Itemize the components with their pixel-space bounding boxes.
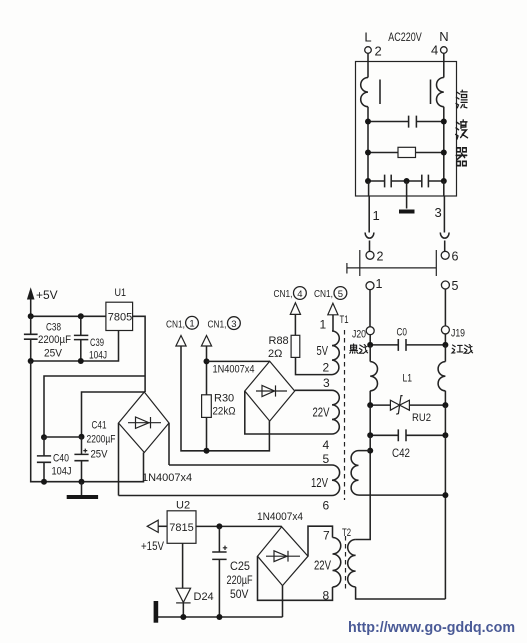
junction dot gnd rail at C38 — [28, 358, 34, 364]
svg-text:CN1,: CN1, — [208, 320, 227, 331]
svg-text:6: 6 — [323, 499, 330, 513]
svg-text:7: 7 — [323, 529, 330, 543]
label 黑线 (black wire) — [350, 344, 368, 353]
wire U2 output to bridge BR3 — [196, 525, 282, 527]
varistor RU2 (bidirectional suppressor) — [370, 396, 445, 415]
wire right rail C42 down to T2 bottom — [444, 435, 446, 599]
svg-text:1N4007x4: 1N4007x4 — [142, 472, 192, 484]
junction dots row 3 — [365, 178, 371, 184]
regulator U1 7805 — [106, 302, 133, 330]
ground symbol thick bar left — [154, 601, 159, 623]
svg-text:2: 2 — [375, 44, 382, 59]
svg-text:2: 2 — [377, 250, 384, 264]
ground chassis bar of filter — [399, 210, 415, 214]
svg-text:C41: C41 — [92, 420, 107, 432]
label 波 (filter char 2) — [456, 120, 468, 139]
terminal J20 — [366, 327, 374, 335]
diode D24 — [176, 588, 191, 617]
bridge rectifier BR1 — [119, 392, 170, 453]
svg-text:CN1,: CN1, — [274, 289, 293, 300]
label 红线 (red wire) — [452, 345, 473, 354]
svg-text:CN1,: CN1, — [166, 320, 185, 331]
wire pin 5 to bridge BR1 — [169, 464, 332, 466]
transformer T2 primary winding — [348, 540, 356, 587]
svg-text:4: 4 — [431, 43, 438, 58]
wire L terminal to filter box — [367, 53, 369, 77]
transformer T1 core — [344, 330, 346, 500]
wire left rail C0 to L1 — [369, 345, 371, 362]
inductor L1 left winding — [370, 362, 377, 391]
transformer T1 22V winding — [332, 390, 339, 434]
wire left rail RU2 to C42 — [369, 405, 371, 435]
junction dot C40 C41 link right — [79, 434, 85, 440]
wire ground rail top section — [31, 331, 119, 362]
svg-text:5: 5 — [452, 279, 459, 293]
svg-text:L: L — [364, 30, 371, 45]
svg-text:3: 3 — [435, 205, 442, 220]
junction dot CN1,3 node — [204, 358, 210, 364]
svg-text:1: 1 — [320, 318, 327, 332]
power arrow +15V — [147, 520, 158, 532]
terminal pin 4 of filter (N input) — [441, 47, 448, 54]
wire BR1 right corner to pin5 — [168, 423, 170, 465]
connector housing tick right — [435, 250, 437, 276]
connector arrow CN1,1 — [176, 336, 186, 347]
svg-text:C40: C40 — [53, 453, 69, 465]
wire T1 primary bottom lead to right rail — [359, 494, 446, 496]
connector socket pin 2 — [366, 251, 374, 259]
svg-text:1: 1 — [189, 319, 194, 330]
capacitor C0 — [370, 339, 445, 351]
wire N terminal to filter box — [443, 53, 445, 77]
transformer T1 primary winding — [351, 451, 358, 495]
svg-text:22kΩ: 22kΩ — [213, 406, 236, 418]
svg-text:R88: R88 — [269, 335, 289, 347]
resistor filter bleeder row 2 — [368, 147, 444, 157]
transformer T1 12V winding — [332, 465, 340, 496]
junction dot C25 top — [216, 523, 222, 529]
wire right rail C0 to L1 — [444, 345, 446, 362]
wire pin 2 to R88 — [296, 357, 333, 374]
power arrow +5V — [27, 287, 35, 299]
wire CN1,3 node to bridge BR2 top — [207, 360, 270, 362]
wire linking C40 and C41 tops — [44, 436, 82, 438]
svg-text:N: N — [439, 29, 448, 44]
svg-text:104J: 104J — [52, 466, 72, 478]
connector plug pin 1 — [366, 282, 374, 290]
wire filter pin 1 down to plug — [368, 181, 371, 233]
svg-text:U1: U1 — [115, 287, 127, 299]
wire U1 input from bridge BR1 — [133, 316, 146, 392]
svg-text:5V: 5V — [317, 344, 329, 358]
wire pin 3 to bridge BR2 — [295, 389, 332, 391]
label 滤 (filter char 1) — [456, 90, 467, 108]
wire J20 to C0 node — [369, 335, 371, 345]
wire pin 5 to J19 — [444, 289, 446, 326]
terminal pin 2 of filter (L input) — [365, 47, 372, 54]
junction dot bottom rail at C41 — [79, 479, 85, 485]
ground symbol bar — [67, 495, 98, 499]
junction dot gnd rail at C39 — [78, 358, 84, 364]
svg-text:C39: C39 — [90, 337, 104, 349]
capacitor C38 — [24, 316, 38, 361]
junction dot C40 C41 link left — [41, 434, 47, 440]
capacitor C41 (electrolytic) — [74, 437, 88, 482]
svg-text:7805: 7805 — [108, 312, 132, 324]
junction dot R30 bottom — [204, 448, 210, 454]
connector hook pin 3 — [440, 233, 449, 239]
svg-text:1: 1 — [376, 277, 383, 291]
svg-text:50V: 50V — [230, 587, 249, 601]
core bar of left filter coil — [379, 80, 381, 105]
junction dot T1 primary top — [367, 448, 373, 454]
svg-text:3: 3 — [231, 319, 236, 330]
wire pin 1 to J20 — [369, 290, 371, 327]
wire CN1,5 to T1 pin 1 (drawn in winding) — [332, 314, 334, 317]
svg-text:2Ω: 2Ω — [268, 348, 282, 360]
connector housing end tick — [346, 263, 348, 274]
capacitor filter Y-cap right row 3 — [407, 175, 444, 188]
svg-text:AC220V: AC220V — [388, 30, 422, 44]
transformer T2 core — [345, 536, 347, 592]
svg-text:1: 1 — [373, 208, 380, 223]
connector housing tick left — [359, 250, 361, 276]
svg-text:+5V: +5V — [36, 288, 58, 302]
wire R30 bottom — [206, 417, 208, 450]
junction dot +5V at C39 — [78, 313, 84, 319]
wire right rail inside filter — [443, 107, 445, 181]
wire U2 gnd down to D24 — [182, 543, 184, 588]
wire BR3 right corner to T2 pin 7 — [308, 526, 333, 556]
connector arrow CN1,3 — [201, 336, 211, 347]
svg-text:U2: U2 — [176, 500, 190, 512]
capacitor C42 — [370, 429, 445, 441]
svg-text:25V: 25V — [44, 348, 63, 360]
svg-text:5: 5 — [323, 452, 330, 466]
inductor L1 right winding — [438, 362, 445, 391]
svg-text:12V: 12V — [311, 476, 328, 490]
connector arrow CN1,4 — [290, 303, 300, 315]
junction dots C42 row — [367, 432, 373, 438]
wire right rail RU2 to C42 — [444, 405, 446, 435]
svg-text:104J: 104J — [89, 350, 107, 362]
wire J19 to C0 node — [444, 334, 446, 345]
resistor R88 body — [291, 335, 300, 357]
svg-text:L1: L1 — [403, 373, 413, 385]
label 器 (filter char 3) — [456, 148, 467, 166]
capacitor C25 (electrolytic) — [212, 526, 227, 617]
transformer T2 22V winding — [333, 538, 341, 588]
junction dots C0 row — [367, 342, 373, 348]
wire Y-cap center to chassis ground — [406, 181, 408, 209]
wire BR3 bottom corner to ground rail — [282, 586, 284, 617]
wire filter pin 3 down to plug — [443, 181, 446, 233]
svg-text:D24: D24 — [194, 591, 214, 603]
connector socket pin 6 — [441, 251, 449, 259]
wire CN1,3 down to R30 — [206, 346, 208, 395]
terminal J19 — [441, 326, 449, 334]
svg-text:7815: 7815 — [169, 522, 193, 534]
wire left rail down — [31, 361, 144, 482]
svg-text:1N4007x4: 1N4007x4 — [257, 511, 303, 523]
bridge rectifier BR3 — [258, 527, 309, 586]
junction dot +5V at C38 — [28, 313, 34, 319]
connector plug pin 5 — [441, 281, 449, 289]
svg-text:C25: C25 — [230, 559, 250, 573]
capacitor filter Y-cap left row 3 — [368, 175, 407, 188]
svg-text:http://www.go-gddq.com: http://www.go-gddq.com — [348, 620, 515, 636]
wire pin 4 to bridge BR2 — [245, 391, 332, 434]
svg-text:T1: T1 — [340, 314, 349, 326]
svg-text:25V: 25V — [91, 449, 109, 461]
svg-text:1N4007x4: 1N4007x4 — [213, 364, 255, 376]
capacitor C39 — [74, 316, 88, 361]
junction dots RU2 row — [367, 402, 373, 408]
svg-text:8: 8 — [323, 589, 330, 603]
svg-text:2200µF: 2200µF — [87, 434, 116, 446]
svg-text:4: 4 — [323, 438, 330, 452]
inductor filter coil left — [361, 78, 368, 107]
svg-text:2200µF: 2200µF — [38, 334, 71, 346]
svg-text:2: 2 — [323, 361, 330, 375]
wire left rail L1 to RU2 — [369, 391, 371, 405]
wire CN1,4 to R88 — [294, 314, 296, 335]
core bar of right filter coil — [430, 80, 432, 105]
wire BR3 left corner to T2 pin 8 — [258, 556, 333, 600]
wire pin 6 to bridge BR1 — [119, 495, 333, 497]
capacitor filter X-cap row 1 — [368, 116, 444, 128]
junction dots row 1 — [365, 119, 371, 125]
inductor filter coil right — [437, 78, 444, 107]
svg-text:220µF: 220µF — [227, 573, 253, 587]
wire T2 primary bottom lead — [356, 587, 446, 599]
wire +5V rail to U1 — [31, 315, 106, 317]
wire ground stub — [81, 482, 83, 495]
junction dot right rail at T1 primary bottom — [442, 492, 448, 498]
wire BR1 left corner to pin6 — [118, 423, 120, 496]
svg-text:RU2: RU2 — [412, 412, 431, 424]
junction dot bottom rail at C40 — [41, 479, 47, 485]
svg-text:5: 5 — [338, 289, 343, 300]
connector housing separator line — [347, 267, 436, 269]
junction dots row 2 — [365, 150, 371, 156]
svg-text:T2: T2 — [342, 527, 351, 539]
regulator U2 7815 — [167, 511, 196, 544]
wire T1 primary top lead — [359, 450, 371, 452]
wire branch to C40 top — [44, 376, 145, 437]
svg-text:22V: 22V — [313, 406, 330, 420]
wire branch to C41 top — [82, 392, 146, 437]
svg-text:J20: J20 — [352, 329, 366, 341]
svg-text:+15V: +15V — [141, 539, 164, 553]
svg-text:6: 6 — [452, 250, 459, 264]
svg-text:22V: 22V — [314, 559, 331, 573]
svg-text:J19: J19 — [451, 328, 465, 340]
bridge rectifier BR2 — [245, 361, 295, 421]
wire CN1,1 down — [181, 346, 269, 451]
svg-text:C0: C0 — [397, 327, 408, 339]
junction dot C25 bottom — [216, 614, 222, 620]
capacitor C40 — [37, 437, 51, 482]
junction dot D24 bottom — [180, 614, 186, 620]
wire left rail inside filter — [367, 107, 369, 181]
svg-text:4: 4 — [297, 289, 302, 300]
line filter box (滤波器) outline — [356, 62, 457, 197]
svg-text:3: 3 — [323, 376, 330, 390]
svg-text:CN1,: CN1, — [314, 289, 333, 300]
svg-text:C42: C42 — [392, 446, 410, 460]
wire bottom ground rail — [156, 616, 283, 618]
wire right rail L1 to RU2 — [444, 391, 446, 405]
transformer T1 5V winding — [332, 316, 339, 375]
svg-text:R30: R30 — [214, 393, 234, 405]
connector hook pin 1 — [365, 233, 374, 239]
connector arrow CN1,5 — [328, 303, 338, 315]
resistor R30 body — [202, 395, 212, 418]
svg-text:C38: C38 — [46, 322, 61, 334]
wire left rail C42 down to T2 primary — [356, 435, 371, 539]
